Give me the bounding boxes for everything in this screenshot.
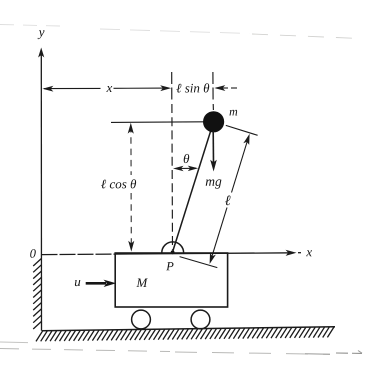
cart body (115, 253, 227, 307)
mass label m (230, 110, 238, 116)
cart label M (136, 279, 148, 288)
horizontal extension line at ball height (111, 121, 204, 124)
u force arrow (86, 280, 116, 287)
left wheel (132, 310, 151, 329)
mg label (206, 179, 222, 188)
y axis label (38, 30, 45, 39)
l sin theta right arrow (214, 85, 237, 91)
ball mass (203, 111, 224, 132)
ground line (42, 327, 335, 331)
pivot bump semicircle (162, 242, 184, 253)
x dimension label (106, 86, 112, 92)
l dimension line (210, 134, 250, 264)
pivot extension line (180, 257, 218, 268)
theta angle arrow (173, 166, 198, 172)
scan artifact bottom line (0, 342, 362, 354)
l cos theta label (101, 179, 136, 188)
pivot label P (166, 262, 173, 270)
l dimension label (225, 196, 231, 206)
y axis wall line (38, 48, 44, 331)
ball vertical dashed line (212, 72, 214, 101)
x dimension line (42, 85, 171, 91)
ground hatching (36, 327, 334, 341)
pivot vertical dashed line (171, 72, 173, 101)
x axis label (306, 250, 312, 256)
origin label 0 (30, 249, 36, 257)
ball extension line (226, 125, 258, 135)
wall hatching (33, 259, 41, 330)
pendulum rod (173, 122, 214, 252)
scan artifact top line (0, 25, 360, 39)
pivot dot (171, 250, 175, 254)
theta label (184, 154, 190, 163)
l sin theta label (176, 83, 209, 92)
mg arrow (210, 131, 217, 172)
u label (75, 280, 80, 286)
x axis (42, 250, 302, 256)
right wheel (191, 310, 210, 329)
l cos theta dimension line (128, 123, 135, 252)
